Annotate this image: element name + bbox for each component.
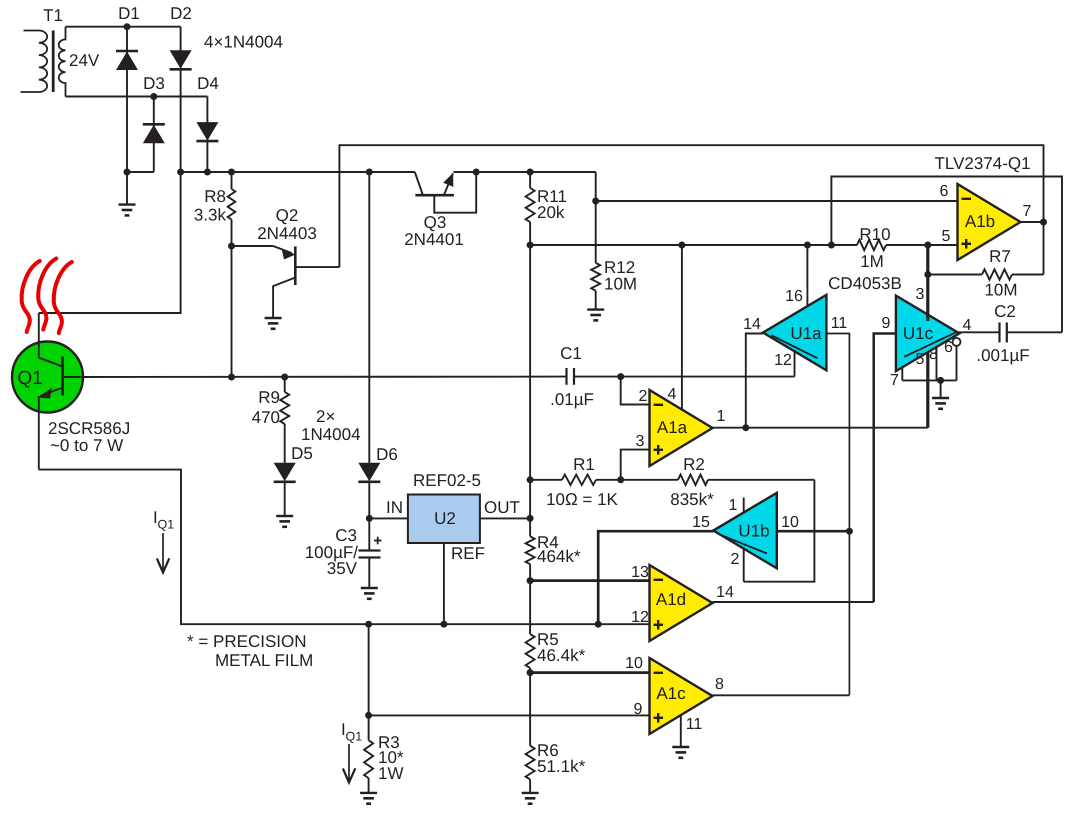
node U1b pin15 bus (595, 621, 602, 628)
svg-text:D5: D5 (291, 444, 313, 463)
node A1b out (1040, 219, 1047, 226)
op-amp A1c (650, 658, 713, 734)
svg-text:D4: D4 (197, 74, 219, 93)
capacitor C2 (959, 302, 1062, 365)
svg-text:* = PRECISION: * = PRECISION (187, 632, 307, 651)
wire rail corner (595, 172, 597, 201)
label A1b pin7 (1023, 203, 1032, 220)
wire D1-D3 return (127, 172, 154, 205)
diode D3 (143, 74, 165, 172)
arrow IQ1 right (343, 744, 355, 783)
node bus R11 (527, 242, 534, 249)
svg-text:R10: R10 (859, 225, 890, 244)
svg-text:2×: 2× (316, 407, 335, 426)
wire U1b out down (848, 531, 850, 695)
heat wave 3 (54, 262, 72, 333)
svg-text:51.1k*: 51.1k* (537, 757, 586, 776)
diode D6 (358, 172, 398, 518)
transistor Q2 (232, 206, 340, 318)
wire A1a pin4 (681, 245, 683, 410)
svg-text:13: 13 (631, 564, 649, 581)
svg-text:A1a: A1a (657, 418, 688, 437)
node lower-left corner bus R3 branch (365, 621, 372, 628)
wire A1c out (713, 694, 850, 696)
node R1 feed (527, 476, 534, 483)
svg-text:16: 16 (785, 288, 803, 305)
svg-text:7: 7 (890, 372, 899, 389)
wire Q1 collector link (39, 172, 181, 313)
wire C2 top link (831, 177, 1062, 333)
node Q3 base rail (473, 169, 480, 176)
label U1b pin10 (781, 514, 799, 531)
svg-text:C2: C2 (994, 302, 1016, 321)
node bus U1a pin16 (804, 242, 811, 249)
wire A1a pin2 (621, 377, 650, 405)
svg-text:12: 12 (631, 609, 649, 626)
svg-text:10: 10 (781, 514, 799, 531)
svg-text:5: 5 (916, 351, 925, 368)
ground R6 (522, 793, 539, 804)
svg-text:10Ω = 1K: 10Ω = 1K (546, 490, 618, 509)
wire R2 to U1b pin2 (744, 480, 815, 582)
svg-text:METAL FILM: METAL FILM (215, 651, 313, 670)
capacitor C1 (550, 344, 594, 409)
wire A1c pin10 (530, 671, 649, 674)
ground R12 (587, 310, 604, 321)
transformer T1 (21, 6, 66, 97)
node U1c gnd (937, 377, 944, 384)
label A1d pin14 (716, 584, 734, 601)
wire U1c pin3 (926, 245, 929, 321)
op-amp A1b (958, 184, 1021, 260)
wire A1b out (1021, 221, 1044, 223)
resistor R2 (621, 455, 815, 509)
node D6 rail (366, 169, 373, 176)
wire A1c pin11 stub (680, 715, 682, 747)
svg-text:REF: REF (451, 544, 485, 563)
svg-text:2N4401: 2N4401 (404, 230, 464, 249)
node OUT (527, 515, 534, 522)
resistor R8 (194, 172, 235, 377)
svg-text:OUT: OUT (484, 498, 520, 517)
svg-text:10: 10 (625, 655, 643, 672)
wire U1c gnd line (902, 379, 956, 381)
node R11 rail (527, 169, 534, 176)
label A1a pin3 (636, 433, 645, 450)
wire U1c pin7 stub (901, 366, 903, 380)
wire U1a pin14 (746, 334, 763, 428)
wire rail right (454, 171, 596, 173)
IC U2 REF02-5 (408, 471, 481, 543)
transistor Q3 (404, 172, 476, 249)
svg-text:35V: 35V (327, 559, 358, 578)
node bus C2 link (828, 242, 835, 249)
op-amp A1a (650, 390, 713, 466)
wire AC top (66, 26, 181, 28)
svg-text:REF02-5: REF02-5 (413, 471, 481, 490)
node R8/Q2 emitter (228, 243, 235, 250)
label U1c pin8 (929, 346, 938, 363)
svg-text:15: 15 (692, 514, 710, 531)
label TLV2374-Q1 (935, 154, 1031, 173)
svg-text:~0 to 7 W: ~0 to 7 W (50, 436, 123, 455)
ground U1c (932, 380, 949, 408)
svg-text:.01µF: .01µF (550, 390, 594, 409)
node AC top / D1 (124, 23, 131, 30)
resistor R11 (526, 172, 567, 536)
node R7 left (924, 271, 931, 278)
svg-text:9: 9 (882, 315, 891, 332)
svg-text:3: 3 (916, 286, 925, 303)
svg-text:U2: U2 (434, 509, 456, 528)
svg-text:6: 6 (944, 339, 953, 356)
node R8/Q1 base (228, 374, 235, 381)
wire Q1 base line (83, 376, 795, 378)
svg-text:.001µF: .001µF (976, 346, 1029, 365)
label 2x 1N4004 (301, 407, 361, 444)
label U1a pin14 (743, 316, 761, 333)
ground bridge (119, 205, 136, 216)
node IN (366, 515, 373, 522)
label 2SCR586J (48, 419, 130, 455)
label A1a pin1 (717, 408, 726, 425)
svg-text:7: 7 (1023, 203, 1032, 220)
wire AC bottom (66, 96, 208, 98)
wire A1a pin3 (621, 450, 650, 480)
svg-text:835k*: 835k* (670, 490, 714, 509)
node lower bus R3 (365, 712, 372, 719)
label U1c pin3 (916, 286, 925, 303)
svg-text:R1: R1 (573, 455, 595, 474)
svg-text:1N4004: 1N4004 (301, 425, 361, 444)
heat wave 1 (22, 261, 40, 332)
svg-text:A1c: A1c (656, 684, 686, 703)
node bus A1a pin4 (678, 242, 685, 249)
wire U1b pin15 (598, 531, 713, 624)
svg-text:11: 11 (831, 315, 848, 332)
svg-text:12: 12 (774, 352, 792, 369)
svg-text:3: 3 (636, 433, 645, 450)
resistor R6 (526, 741, 586, 793)
node A1d pin13 (527, 577, 534, 584)
svg-text:R2: R2 (683, 455, 705, 474)
switch U1c (896, 296, 960, 372)
node U1b out (846, 528, 853, 535)
resistor R3 (364, 733, 404, 793)
label A1c pin9 (634, 701, 643, 718)
svg-text:470: 470 (252, 408, 280, 427)
label IQ1 left (153, 508, 174, 532)
node A1a out (742, 424, 749, 431)
wire U1b pin2 stub (743, 549, 745, 582)
node R8 rail (228, 169, 235, 176)
svg-text:6: 6 (940, 183, 949, 200)
svg-text:1: 1 (729, 497, 738, 514)
svg-text:2: 2 (731, 551, 740, 568)
label A1a pin2 (639, 388, 648, 405)
svg-text:C1: C1 (560, 344, 582, 363)
svg-text:1W: 1W (378, 764, 404, 783)
switch U1a (763, 295, 827, 371)
label U1b pin2 (731, 551, 740, 568)
svg-text:D1: D1 (118, 4, 140, 23)
node REF bus (440, 621, 447, 628)
node A1c pin10 (527, 669, 534, 676)
label U1c pin5 (916, 351, 925, 368)
label REF (451, 544, 485, 563)
wire R1 feed (530, 479, 562, 481)
svg-text:2: 2 (639, 388, 648, 405)
svg-text:U1b: U1b (738, 522, 769, 541)
label A1d pin12 (631, 609, 649, 626)
wire IN (369, 517, 408, 519)
svg-text:T1: T1 (43, 6, 63, 25)
label A1d pin13 (631, 564, 649, 581)
wire A1b pin6 (596, 200, 958, 202)
label CD4053B (828, 274, 902, 293)
label U1a pin11 (831, 315, 848, 332)
resistor R7 (928, 222, 1044, 300)
label A1a pin4 (668, 386, 677, 403)
wire lower bus (369, 714, 650, 716)
ground D5 (276, 516, 293, 527)
resistor R1 (546, 455, 621, 509)
label A1c pin11 (686, 716, 703, 733)
label 4x1N4004 (204, 33, 283, 52)
switch U1b (713, 493, 777, 569)
wire top bus (339, 145, 1043, 267)
svg-text:20k: 20k (537, 203, 565, 222)
op-amp A1d (650, 565, 713, 641)
svg-text:4: 4 (668, 386, 677, 403)
svg-text:IN: IN (386, 498, 403, 517)
svg-text:11: 11 (686, 716, 703, 733)
svg-text:5: 5 (942, 228, 951, 245)
svg-text:14: 14 (743, 316, 761, 333)
wire A1d out (713, 601, 874, 603)
label A1c pin8 (715, 676, 724, 693)
label U1a pin16 (785, 288, 803, 305)
wire U1c pin9 (874, 334, 896, 603)
svg-text:24V: 24V (69, 51, 100, 70)
diode D2 (170, 4, 192, 172)
wire U1c pin6 stub (956, 346, 958, 381)
node bus pin5 (924, 242, 931, 249)
arrow IQ1 left (157, 533, 169, 573)
wire OUT (480, 517, 530, 519)
node pin6 branch (592, 198, 599, 205)
svg-text:D6: D6 (376, 445, 398, 464)
node D4 rail (204, 169, 211, 176)
resistor R4 (526, 533, 581, 634)
label A1b pin6 (940, 183, 949, 200)
transistor Q1 (12, 313, 83, 470)
resistor R10 (857, 225, 891, 271)
label U1c pin7 (890, 372, 899, 389)
svg-text:2N4403: 2N4403 (257, 224, 317, 243)
svg-text:A1d: A1d (656, 590, 686, 609)
ground A1c (672, 747, 689, 758)
diode D5 (274, 444, 313, 516)
wire U1a pin16 stub (806, 245, 808, 306)
ground R3 (360, 793, 377, 804)
label IN (386, 498, 403, 517)
svg-text:Q1: Q1 (17, 368, 42, 389)
svg-text:R9: R9 (258, 388, 280, 407)
node D1 return (124, 169, 131, 176)
resistor R9 (252, 377, 290, 463)
label IQ1 right (341, 720, 362, 744)
wire supply bus (530, 244, 957, 246)
svg-text:A1b: A1b (965, 212, 995, 231)
svg-text:U1c: U1c (903, 324, 934, 343)
wire U1c pin5 / A1a out link (926, 352, 929, 428)
svg-text:Q2: Q2 (276, 206, 299, 225)
wire Q1 emitter bus (39, 470, 650, 625)
label U1b pin15 (692, 514, 710, 531)
heat wave 2 (38, 259, 56, 330)
wire U1b pin1 stub (743, 498, 745, 513)
svg-text:3.3k: 3.3k (194, 206, 227, 225)
svg-text:4×1N4004: 4×1N4004 (204, 33, 283, 52)
svg-text:8: 8 (715, 676, 724, 693)
svg-text:10M: 10M (604, 275, 637, 294)
svg-text:R7: R7 (989, 247, 1011, 266)
svg-text:14: 14 (716, 584, 734, 601)
label U1b pin1 (729, 497, 738, 514)
diode D1 (116, 4, 140, 172)
node R1 R2 (617, 476, 624, 483)
svg-text:Q1: Q1 (346, 730, 363, 744)
wire U1b out (777, 530, 850, 533)
wire REF (443, 543, 445, 624)
node C1 right (617, 373, 624, 380)
resistor R12 (591, 201, 637, 310)
wire U1a pin11 (826, 334, 849, 532)
svg-text:D3: D3 (143, 74, 165, 93)
node AC bottom / D3 (150, 93, 157, 100)
svg-text:464k*: 464k* (537, 547, 581, 566)
node D2 rail (177, 169, 184, 176)
svg-text:1M: 1M (860, 252, 884, 271)
label U1c pin4 (963, 317, 972, 334)
svg-text:1: 1 (717, 408, 726, 425)
capacitor C3 (305, 518, 382, 588)
label precision note (187, 632, 313, 670)
ground C3 (361, 588, 378, 599)
wire U1c pin8 stub (936, 348, 938, 381)
wire U1a pin12 stub (794, 352, 796, 377)
svg-text:U1a: U1a (790, 324, 822, 343)
svg-text:46.4k*: 46.4k* (537, 646, 586, 665)
wire A1a out (713, 427, 928, 429)
label U1c pin9 (882, 315, 891, 332)
label 24V (69, 51, 100, 70)
svg-text:CD4053B: CD4053B (828, 274, 902, 293)
wire A1d pin13 (530, 579, 649, 582)
ground Q2 (265, 318, 282, 329)
svg-text:D2: D2 (170, 4, 192, 23)
label U1c pin6 (944, 339, 953, 356)
label A1c pin10 (625, 655, 643, 672)
svg-text:10M: 10M (984, 281, 1017, 300)
svg-text:TLV2374-Q1: TLV2374-Q1 (935, 154, 1031, 173)
wire rail (181, 171, 415, 173)
U1c bubble (953, 338, 961, 346)
wire R3 col (368, 624, 370, 740)
node R9/Q1 base (281, 374, 288, 381)
diode D4 (196, 74, 218, 172)
label OUT (484, 498, 520, 517)
svg-text:Q1: Q1 (158, 518, 175, 532)
label U1a pin12 (774, 352, 792, 369)
svg-text:R8: R8 (204, 187, 226, 206)
resistor R5 (526, 630, 586, 746)
label A1b pin5 (942, 228, 951, 245)
